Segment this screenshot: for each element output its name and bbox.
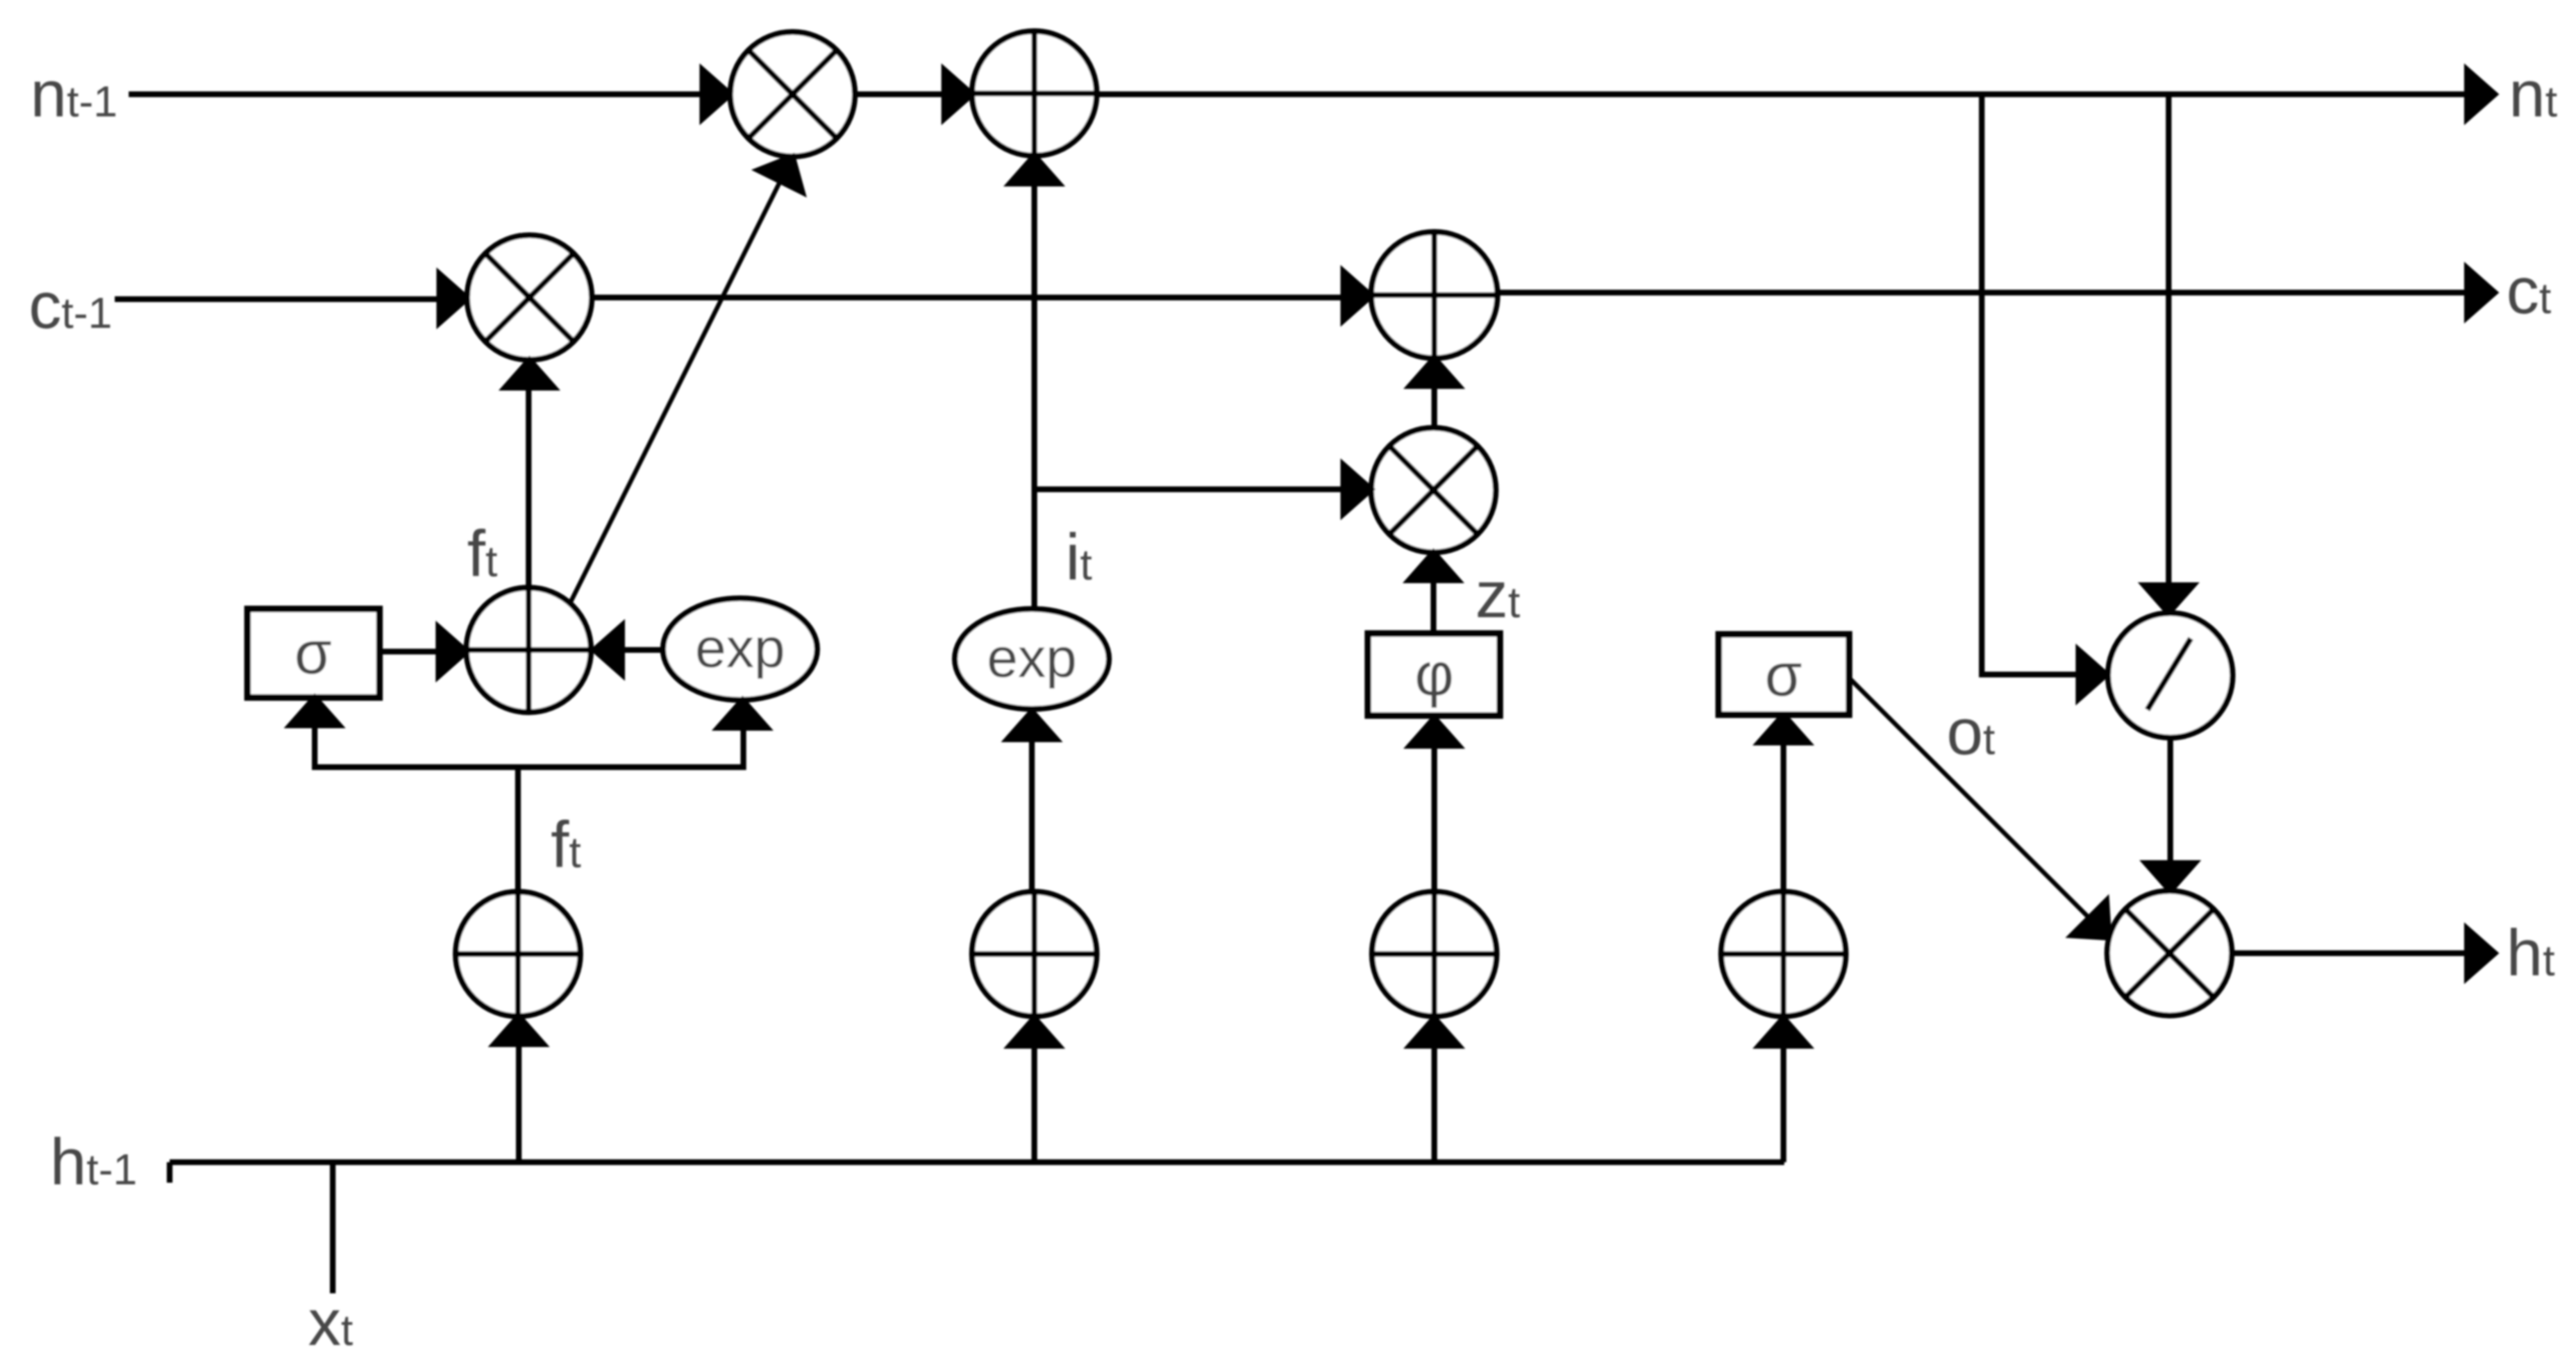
arrowhead into n-row multiply bbox=[702, 70, 730, 119]
wire E1 to add node F bbox=[622, 647, 663, 653]
wire h-branch up to add node B1 bbox=[516, 1044, 522, 1162]
wire from add node B2 up to E2 bbox=[1029, 739, 1035, 892]
multiply node M2 (c-row, c_{t-1} * f_t) bbox=[467, 235, 592, 360]
arrowhead n_t output bbox=[2467, 70, 2495, 119]
arrowhead into n-row add node bbox=[944, 70, 972, 119]
arrowhead down into divide top bbox=[2144, 585, 2193, 613]
svg-text:exp: exp bbox=[987, 627, 1077, 689]
wire M2 to add node A2 bbox=[592, 295, 1343, 301]
arrowhead c_t output bbox=[2467, 268, 2495, 317]
wire h-branch up to add node B4 bbox=[1781, 1046, 1787, 1162]
arrowhead into divide node left bbox=[2079, 650, 2106, 699]
sigma box S2 (output gate sigmoid) bbox=[1719, 634, 1849, 715]
diagonal wire o_t from S2 to multiply M4 bbox=[1850, 679, 2089, 918]
wire i-branch to M3 left bbox=[1034, 487, 1343, 493]
start tick of h bus bbox=[167, 1162, 173, 1183]
wire i-branch vertical (exp to A1) bbox=[1032, 184, 1038, 609]
multiply node M3 (i_t * z_t) bbox=[1371, 428, 1496, 552]
arrowhead h_t output bbox=[2467, 929, 2495, 978]
wire c_{t-1} input to multiply node M2 bbox=[115, 297, 439, 302]
arrowhead up into E1 bottom bbox=[718, 700, 767, 728]
diagonal wire F to M1 (f_t to n-row multiply) bbox=[570, 181, 780, 604]
arrowhead into M3 left bbox=[1343, 465, 1371, 514]
arrowhead up into E2 bottom bbox=[1007, 711, 1056, 739]
add node A2 (c-row, c_t sum) bbox=[1371, 232, 1497, 358]
wire h-branch up to add node B3 bbox=[1432, 1046, 1438, 1162]
multiply node M4 (o_t * c_t/n_t) bbox=[2107, 891, 2232, 1015]
wire z_t from phi box up to M3 bbox=[1431, 580, 1437, 634]
add node F (f_t junction) bbox=[466, 588, 591, 712]
arrowhead diagonal into M1 bottom bbox=[758, 157, 802, 192]
wire divide down to multiply M4 bbox=[2168, 738, 2174, 863]
wire c-row output to c_t bbox=[1497, 290, 2467, 296]
exp ellipse E1 (forget gate exp) bbox=[663, 598, 817, 700]
arrowhead up into A2 bottom bbox=[1410, 358, 1459, 386]
arrowhead up into B4 bottom bbox=[1759, 1018, 1808, 1046]
wire n_{t-1} input to multiply node bbox=[129, 92, 702, 98]
svg-text:exp: exp bbox=[695, 617, 785, 679]
arrowhead up into M2 bottom bbox=[505, 360, 554, 388]
arrowhead down into M4 top bbox=[2146, 863, 2195, 891]
add node B1 (forget preactivation sum) bbox=[456, 892, 580, 1016]
arrowhead into F right bbox=[594, 625, 622, 675]
wire h_{t-1} bus bbox=[170, 1160, 1784, 1165]
arrowhead diagonal into M4 left bbox=[2072, 901, 2109, 938]
arrowhead up into B1 bottom bbox=[494, 1016, 543, 1044]
svg-text:σ: σ bbox=[294, 619, 332, 687]
wire A2 input from multiply node M3 below bbox=[1432, 386, 1438, 428]
add node B2 (input preactivation sum) bbox=[972, 892, 1097, 1016]
arrowhead into F left bbox=[438, 627, 466, 676]
arrowhead up into phi box bottom bbox=[1410, 718, 1459, 746]
wire M1 to add node A1 bbox=[855, 92, 944, 98]
wire x_t drop bbox=[330, 1162, 336, 1293]
wire from add node B3 up to phi bbox=[1432, 746, 1438, 892]
wire S1 to add node F bbox=[379, 649, 438, 655]
wire n-row tap down to divide elbow bbox=[1982, 94, 2079, 675]
multiply node M1 (n-row, n_{t-1} * f_t) bbox=[730, 32, 855, 157]
feedback wire to sigma and exp bbox=[315, 725, 743, 767]
wire n-row tap down to divide top bbox=[2166, 94, 2172, 585]
arrowhead up into A1 bottom bbox=[1010, 156, 1059, 184]
sigma box S1 (forget gate sigmoid) bbox=[248, 609, 379, 697]
wire M4 output to h_t bbox=[2232, 951, 2467, 956]
svg-text:φ: φ bbox=[1415, 640, 1454, 708]
arrowhead up into S1 bottom bbox=[290, 697, 339, 725]
add node B3 (cell preactivation sum) bbox=[1372, 892, 1497, 1016]
wire B4 up to sigma box S2 bbox=[1781, 743, 1787, 892]
add node B4 (output preactivation sum) bbox=[1721, 892, 1846, 1016]
arrowhead into c-row multiply bbox=[439, 274, 467, 323]
wire n-row output to n_t bbox=[1097, 92, 2467, 98]
wire B1 up to feedback tee bbox=[516, 767, 521, 892]
wire F up to M2 (f_t) bbox=[526, 388, 532, 588]
wire h-branch up to add node B2 bbox=[1032, 1046, 1038, 1162]
arrowhead up into M3 bottom (z_t) bbox=[1409, 552, 1458, 580]
divide node D (c_t / n_t) bbox=[2108, 613, 2233, 738]
exp ellipse E2 (input gate exp) bbox=[955, 609, 1109, 709]
svg-text:σ: σ bbox=[1765, 641, 1802, 709]
arrowhead up into B3 bottom bbox=[1410, 1018, 1459, 1046]
arrowhead up into B2 bottom bbox=[1010, 1018, 1059, 1046]
arrowhead up into S2 bottom bbox=[1759, 715, 1808, 743]
arrowhead into c-row add node bbox=[1343, 271, 1371, 320]
add node A1 (n-row, n_t sum) bbox=[972, 31, 1097, 156]
phi box (tanh activation) bbox=[1368, 634, 1500, 716]
